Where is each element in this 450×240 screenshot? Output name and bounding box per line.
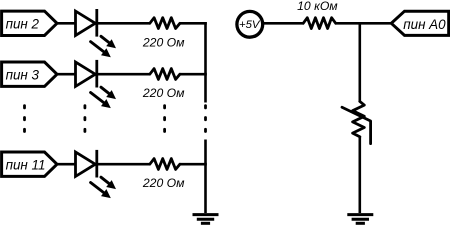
wire [180, 163, 207, 166]
LED D3 light-emission arrows [91, 177, 116, 198]
resistor R1 [150, 18, 180, 29]
resistor R4 10 кОм [303, 18, 336, 29]
svg-text:пин 11: пин 11 [6, 157, 46, 172]
svg-text:220 Ом: 220 Ом [142, 35, 185, 49]
LED D1 [76, 9, 97, 37]
+5V supply terminal [237, 11, 263, 37]
pin header tag "пин 11" [2, 152, 57, 176]
ellipsis dots (LED column) [84, 106, 87, 132]
wire [97, 163, 150, 166]
wire [264, 22, 304, 25]
ground right [347, 215, 373, 224]
LED D3 [76, 150, 97, 178]
svg-text:220 Ом: 220 Ом [142, 86, 185, 100]
svg-text:220 Ом: 220 Ом [142, 176, 185, 190]
pin header tag "пин 2" [2, 11, 57, 35]
svg-text:пин 3: пин 3 [6, 67, 40, 82]
ellipsis dots (resistor column) [163, 106, 166, 132]
wire [358, 136, 361, 213]
wire [180, 22, 207, 25]
photoresistor R5 (variable resistor body) [353, 101, 365, 136]
wire [97, 22, 150, 25]
pin tag "пин A0" [391, 11, 448, 35]
LED D1 light-emission arrows [91, 36, 116, 57]
resistor R3 [150, 159, 180, 170]
wire [180, 73, 207, 76]
resistor R2 [150, 69, 180, 80]
LED D2 light-emission arrows [91, 87, 116, 108]
wire: node A0 down [358, 23, 361, 102]
pin header tag "пин 3" [2, 62, 57, 86]
ellipsis dots (pin column) [23, 106, 26, 132]
photoresistor R5 bent stroke [342, 107, 371, 143]
wire [57, 163, 76, 166]
wire: ground bus upper segment [204, 22, 207, 103]
wire: ground bus lower segment [204, 140, 207, 214]
ellipsis dots (bus column) [204, 106, 207, 132]
svg-text:пин 2: пин 2 [6, 16, 40, 31]
svg-text:10 кОм: 10 кОм [297, 0, 338, 13]
ground left [193, 215, 219, 224]
wire [336, 22, 392, 25]
svg-text:+5V: +5V [239, 19, 261, 31]
wire [57, 73, 76, 76]
wire [57, 22, 76, 25]
svg-text:пин A0: пин A0 [403, 17, 446, 32]
LED D2 [76, 60, 97, 88]
wire [97, 73, 150, 76]
